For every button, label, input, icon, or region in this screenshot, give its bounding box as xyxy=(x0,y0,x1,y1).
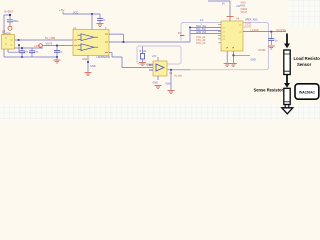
svg-text:5V_USB: 5V_USB xyxy=(45,36,55,40)
svg-text:I_LOAD: I_LOAD xyxy=(250,29,259,32)
ground xyxy=(54,57,61,63)
pin labels U4 right xyxy=(245,22,252,28)
op-amp U3 xyxy=(149,55,173,76)
ground arrow (hollow) xyxy=(282,104,293,114)
op-amp U2 xyxy=(73,26,110,59)
svg-text:GND: GND xyxy=(90,65,96,68)
wire U3 output xyxy=(167,69,190,71)
wire 5V bus to U2 xyxy=(15,39,74,41)
resistor R1 xyxy=(140,47,147,63)
wire to ground xyxy=(170,70,172,90)
capacitor C6 xyxy=(268,32,278,45)
svg-text:5V: 5V xyxy=(222,2,225,5)
svg-text:+5V: +5V xyxy=(59,8,64,12)
wire U2 lower output xyxy=(109,52,153,67)
svg-text:GND: GND xyxy=(153,82,159,85)
chip label box INA169 xyxy=(295,84,319,99)
svg-text:10u: 10u xyxy=(24,50,29,53)
svg-text:CTG_A3: CTG_A3 xyxy=(196,42,206,45)
annotation arrow (current in) xyxy=(284,34,290,49)
ground xyxy=(224,64,231,67)
load resistor body xyxy=(284,50,290,75)
wire U3 GND xyxy=(157,76,159,80)
junction xyxy=(18,44,20,46)
wire VSYS to U2 xyxy=(42,45,73,47)
svg-text:ADR_IN3: ADR_IN3 xyxy=(196,31,207,34)
ground xyxy=(230,64,237,67)
schematic sheet background xyxy=(0,0,320,120)
junction xyxy=(123,41,125,43)
junction xyxy=(91,13,93,15)
off-sheet canvas bottom strip xyxy=(0,104,320,121)
ground xyxy=(97,24,104,27)
junction xyxy=(270,31,272,33)
capacitor C3 xyxy=(29,48,39,57)
svg-text:VREF_ADC: VREF_ADC xyxy=(245,18,258,21)
annotation arrow (to sense) xyxy=(284,75,290,88)
wires to U4 left pins xyxy=(190,27,221,42)
svg-text:Vo=Is*Rs: Vo=Is*Rs xyxy=(276,29,287,32)
svg-text:Sense Resistor: Sense Resistor xyxy=(254,88,284,93)
wire top rail to U4 xyxy=(208,0,230,2)
svg-text:GND: GND xyxy=(166,83,172,86)
net port circle xyxy=(39,44,43,48)
wire +5V rail xyxy=(63,12,100,15)
svg-text:Vo_adc: Vo_adc xyxy=(174,75,183,78)
junction xyxy=(233,54,235,56)
module outline A xyxy=(137,46,181,64)
wires U4 bottom grounds xyxy=(227,51,250,63)
svg-text:INA169A1: INA169A1 xyxy=(299,90,315,94)
svg-text:B+BAT: B+BAT xyxy=(5,10,14,14)
svg-text:LM358ADR: LM358ADR xyxy=(97,55,111,59)
wire U2 outputs xyxy=(109,34,190,42)
wire U2 GND pin xyxy=(87,56,89,73)
net port circle xyxy=(8,26,12,30)
IC U1 xyxy=(2,29,15,49)
label Load Resistor/Sensor xyxy=(294,56,320,67)
off-sheet canvas top-right xyxy=(289,0,320,27)
ground xyxy=(168,91,175,94)
capacitor C1 xyxy=(7,19,19,26)
pin label rows xyxy=(241,1,248,14)
svg-text:GND: GND xyxy=(251,59,257,62)
wire feedback loop U1 xyxy=(8,45,19,52)
power flag +5V at U4 xyxy=(227,5,241,21)
module outline B xyxy=(181,23,269,70)
junction xyxy=(170,69,172,71)
ground rail wire xyxy=(4,56,57,58)
net flag xyxy=(178,32,185,36)
svg-text:R 10k: R 10k xyxy=(140,50,147,53)
svg-text:Sensor: Sensor xyxy=(297,62,312,67)
svg-text:VSYS: VSYS xyxy=(46,43,53,46)
junction xyxy=(189,27,191,29)
junction xyxy=(87,61,89,63)
svg-text:PG: PG xyxy=(178,32,182,35)
sense resistor body xyxy=(284,88,290,104)
svg-text:+SYS: +SYS xyxy=(34,45,41,48)
capacitor C2 xyxy=(19,47,29,58)
ground xyxy=(139,63,146,66)
wire U4 VCC xyxy=(229,1,231,16)
svg-text:GND: GND xyxy=(82,59,87,61)
ground xyxy=(155,86,162,89)
svg-text:Load Resistor/: Load Resistor/ xyxy=(294,56,320,61)
svg-text:VCC: VCC xyxy=(73,11,78,14)
svg-text:+5V: +5V xyxy=(152,55,157,58)
svg-text:10u: 10u xyxy=(34,50,39,53)
capacitor C5 xyxy=(54,45,63,58)
wire SYS rail xyxy=(15,47,44,49)
junction xyxy=(9,14,11,16)
wire xyxy=(4,14,10,58)
svg-text:PGND: PGND xyxy=(259,49,266,52)
ground xyxy=(268,46,275,49)
wire U4 output xyxy=(243,31,286,33)
svg-text:VOUT: VOUT xyxy=(241,11,248,14)
ground xyxy=(85,73,92,76)
svg-text:100u: 100u xyxy=(13,19,19,23)
IC U4 xyxy=(218,17,243,51)
capacitor C4 xyxy=(97,14,106,23)
wire to U2 VCC pin xyxy=(91,14,93,30)
